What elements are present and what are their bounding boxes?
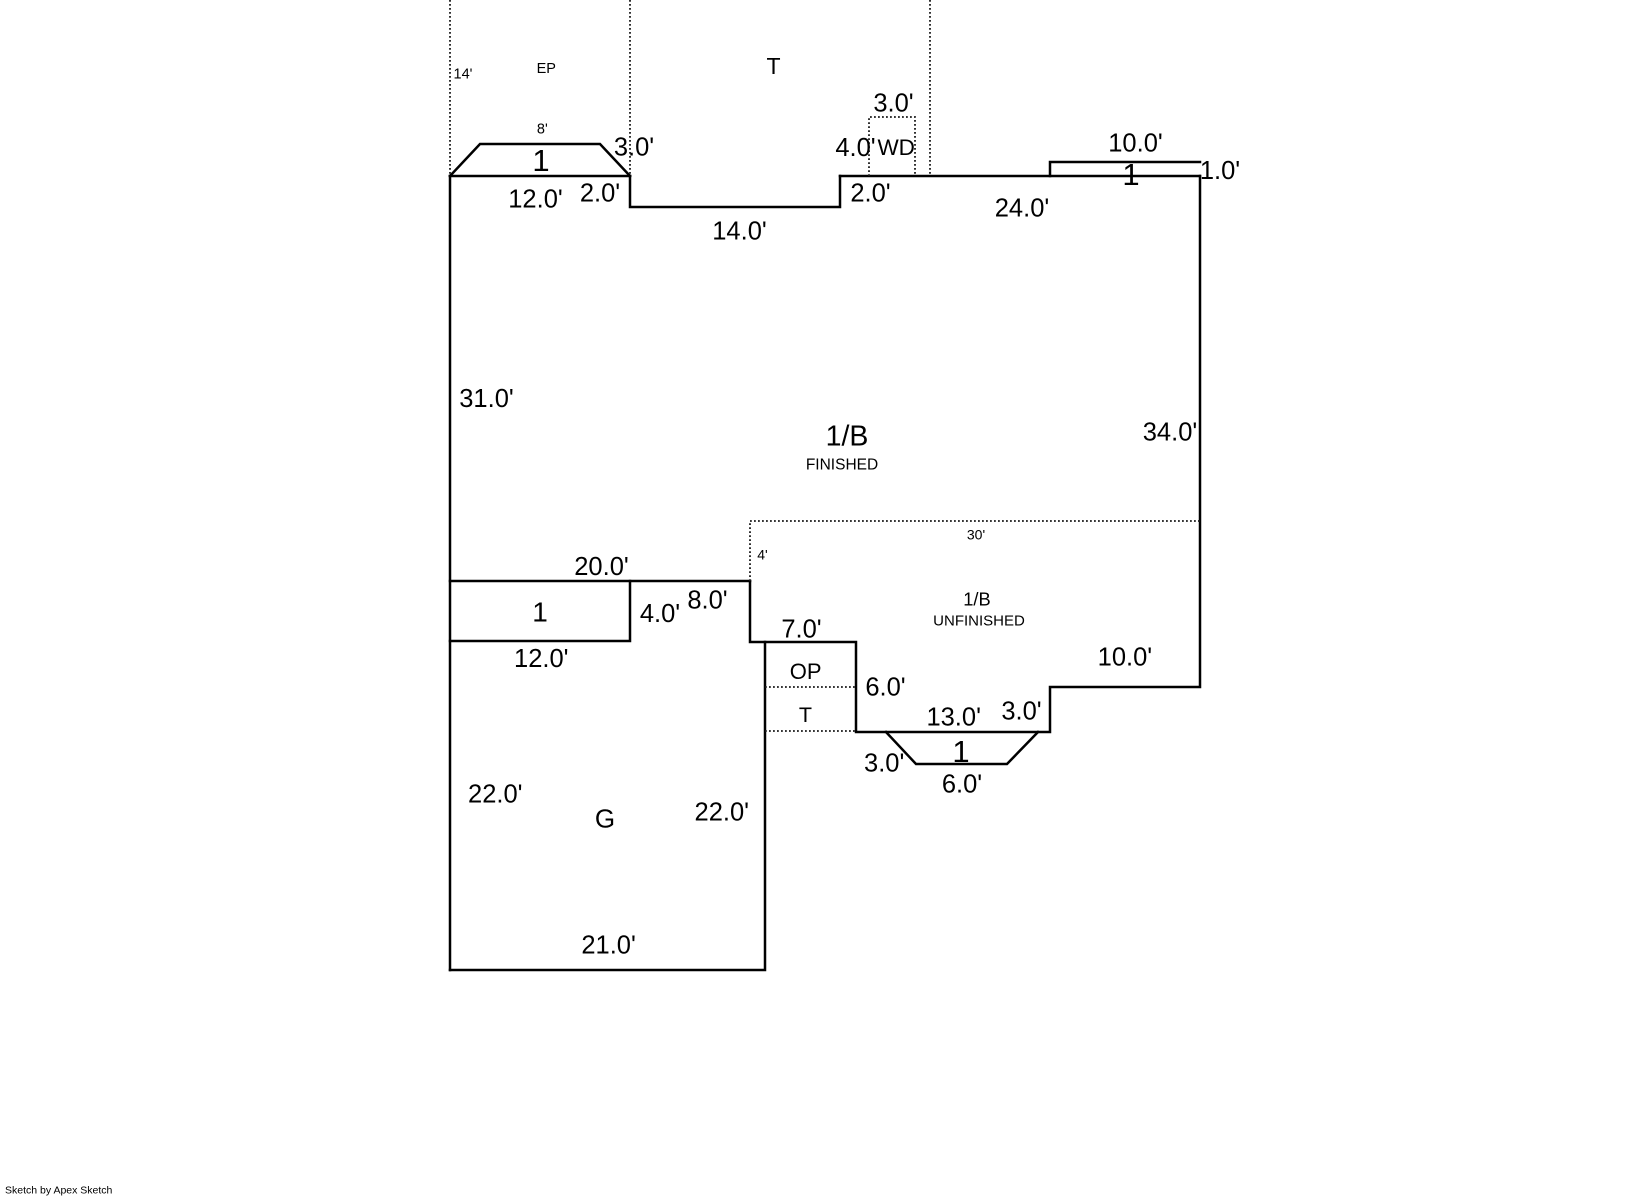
svg-text:12.0': 12.0'	[514, 645, 569, 673]
svg-text:8.0': 8.0'	[687, 587, 727, 615]
svg-text:7.0': 7.0'	[781, 616, 821, 644]
svg-text:4': 4'	[757, 547, 767, 563]
hidden boundary 1/B unfinished (4' left, 30' top)	[750, 521, 1200, 581]
wall step 2.0' / 14.0' recess / 2.0' step	[630, 176, 840, 207]
svg-text:1: 1	[952, 734, 969, 769]
hidden line EP/T boundary (x=630)	[629, 0, 631, 176]
svg-text:3.0': 3.0'	[1001, 698, 1041, 726]
svg-text:1/B: 1/B	[826, 421, 869, 453]
wall garage bottom 21.0' and garage right 22.0'	[450, 642, 765, 970]
svg-text:20.0': 20.0'	[574, 553, 629, 581]
wall right 34.0' and lower steps 10.0'/3.0'/13.0'/6.0'/7.0'	[750, 176, 1200, 732]
svg-text:4.0': 4.0'	[835, 134, 875, 162]
svg-text:1: 1	[532, 597, 548, 628]
svg-text:31.0': 31.0'	[459, 385, 514, 413]
svg-text:WD: WD	[877, 135, 915, 160]
svg-text:1: 1	[1122, 157, 1139, 192]
svg-text:21.0': 21.0'	[581, 932, 636, 960]
svg-text:6.0': 6.0'	[942, 771, 982, 799]
wall top-right 24.0'	[840, 175, 1200, 178]
svg-text:4.0': 4.0'	[640, 600, 680, 628]
bay window rectangle 1 (12.0' x 4.0') right edge and bottom	[450, 581, 630, 641]
svg-text:8': 8'	[537, 122, 548, 138]
svg-text:3.0': 3.0'	[873, 90, 913, 118]
hidden line EP area left (x=450)	[449, 0, 451, 176]
svg-text:2.0': 2.0'	[580, 180, 620, 208]
svg-text:14.0': 14.0'	[712, 218, 767, 246]
svg-text:13.0': 13.0'	[926, 704, 981, 732]
hidden line T area right (x=930)	[929, 0, 931, 176]
svg-text:EP: EP	[537, 61, 556, 77]
svg-text:T: T	[799, 703, 812, 727]
bay rectangle 1 top-right (10.0' x 1.0')	[1050, 162, 1200, 176]
svg-text:3.0': 3.0'	[614, 134, 654, 162]
bay trapezoid 1 (12' bottom, 8' top, 3.0' slants)	[450, 144, 630, 176]
svg-text:2.0': 2.0'	[850, 180, 890, 208]
svg-text:22.0': 22.0'	[468, 781, 523, 809]
svg-text:10.0': 10.0'	[1098, 644, 1153, 672]
svg-text:14': 14'	[454, 67, 473, 83]
hidden divider OP bottom	[765, 686, 856, 688]
svg-text:6.0': 6.0'	[865, 674, 905, 702]
svg-text:OP: OP	[790, 659, 822, 684]
svg-text:UNFINISHED: UNFINISHED	[933, 613, 1025, 630]
svg-text:34.0': 34.0'	[1143, 419, 1198, 447]
svg-text:12.0': 12.0'	[508, 186, 563, 214]
bay trapezoid 1 bottom (13' line, 6.0' bottom, 3.0' slants)	[886, 732, 1038, 764]
svg-text:T: T	[766, 53, 780, 79]
svg-text:3.0': 3.0'	[864, 750, 904, 778]
svg-text:Sketch by Apex Sketch: Sketch by Apex Sketch	[5, 1185, 113, 1197]
svg-text:22.0': 22.0'	[695, 799, 750, 827]
wall 20.0' garage top	[450, 580, 750, 583]
wall top-left 12.0'	[450, 175, 630, 178]
svg-text:1: 1	[532, 143, 549, 178]
wall left 31.0' + 22.0'	[449, 176, 452, 970]
svg-text:24.0': 24.0'	[995, 195, 1050, 223]
hidden divider T bottom	[765, 730, 856, 732]
svg-text:G: G	[595, 804, 615, 834]
hidden rectangle WD (3.0' x 4.0')	[869, 117, 915, 176]
svg-text:FINISHED: FINISHED	[806, 457, 878, 474]
svg-text:1/B: 1/B	[963, 589, 990, 610]
svg-text:1.0': 1.0'	[1200, 157, 1240, 185]
svg-text:10.0': 10.0'	[1108, 130, 1163, 158]
svg-text:30': 30'	[967, 527, 985, 543]
